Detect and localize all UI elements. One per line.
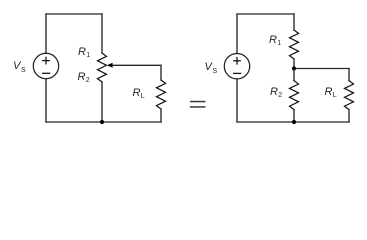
- wire: RL top lead (right circuit): [348, 69, 350, 81]
- wire: RL bottom lead (right circuit): [348, 110, 350, 122]
- wire: R2 bottom lead: [293, 110, 295, 122]
- wire: RL top lead (left circuit): [160, 65, 162, 80]
- wire: RL bottom lead (left circuit): [160, 109, 162, 122]
- label R1 (right circuit): [269, 34, 281, 47]
- junction dot mid node: [292, 66, 296, 70]
- wire: left circuit bottom (46,122)-(161,122): [46, 121, 161, 123]
- wire: R2 top lead: [293, 69, 295, 81]
- wire: potentiometer top lead: [101, 14, 103, 53]
- svg-text:1: 1: [86, 52, 90, 59]
- wire: potentiometer bottom lead: [101, 82, 103, 122]
- R2 zigzag (right circuit): [290, 81, 299, 110]
- label R2 (right circuit): [270, 86, 282, 99]
- junction dot bottom of pot: [100, 120, 104, 124]
- label VS (left circuit): [13, 60, 26, 74]
- svg-text:R: R: [78, 46, 86, 58]
- wiper arrow shaft (65.3) to RL branch: [111, 64, 161, 66]
- wire: R1 bottom lead to mid node: [293, 59, 295, 69]
- potentiometer R1/R2 zigzag: [98, 53, 107, 82]
- wire: left circuit top (46,14)-(102,14): [46, 13, 102, 15]
- source VS (left circuit): [33, 53, 58, 78]
- label R1 (left circuit, pot upper): [78, 46, 90, 59]
- svg-text:S: S: [213, 68, 218, 75]
- junction dot bottom node: [292, 120, 296, 124]
- label R2 (left circuit, pot lower): [78, 71, 90, 84]
- svg-text:R: R: [78, 71, 86, 83]
- wire: left circuit left vertical lower: [45, 79, 47, 122]
- wire: right circuit bottom (237,122)-(349,122): [237, 121, 349, 123]
- svg-text:R: R: [325, 86, 333, 98]
- R1 zigzag (right circuit): [290, 30, 299, 59]
- wire: right circuit left vertical lower: [236, 79, 238, 122]
- wire: R1 top lead (right circuit): [293, 14, 295, 30]
- wire: right circuit top (237,14)-(294,14): [237, 13, 294, 15]
- svg-text:R: R: [269, 34, 277, 46]
- svg-text:2: 2: [86, 77, 90, 84]
- svg-text:S: S: [21, 67, 26, 74]
- wiper arrowhead: [107, 63, 113, 68]
- label VS (right circuit): [205, 61, 218, 75]
- label RL (right circuit): [325, 86, 337, 99]
- svg-text:2: 2: [278, 92, 282, 99]
- label RL (left circuit): [133, 87, 145, 100]
- svg-text:R: R: [133, 87, 141, 99]
- wire: left circuit left vertical upper: [45, 14, 47, 53]
- svg-text:L: L: [333, 92, 337, 99]
- svg-text:L: L: [141, 93, 145, 100]
- RL zigzag (right circuit): [345, 81, 354, 110]
- wire: right circuit left vertical upper: [236, 14, 238, 54]
- svg-text:1: 1: [277, 40, 281, 47]
- source VS (right circuit): [224, 53, 249, 78]
- equals sign: [190, 101, 206, 108]
- svg-text:R: R: [270, 86, 278, 98]
- RL zigzag (left circuit): [157, 80, 166, 109]
- wire: mid node horizontal (294,68.5)-(349,68.5): [294, 68, 349, 70]
